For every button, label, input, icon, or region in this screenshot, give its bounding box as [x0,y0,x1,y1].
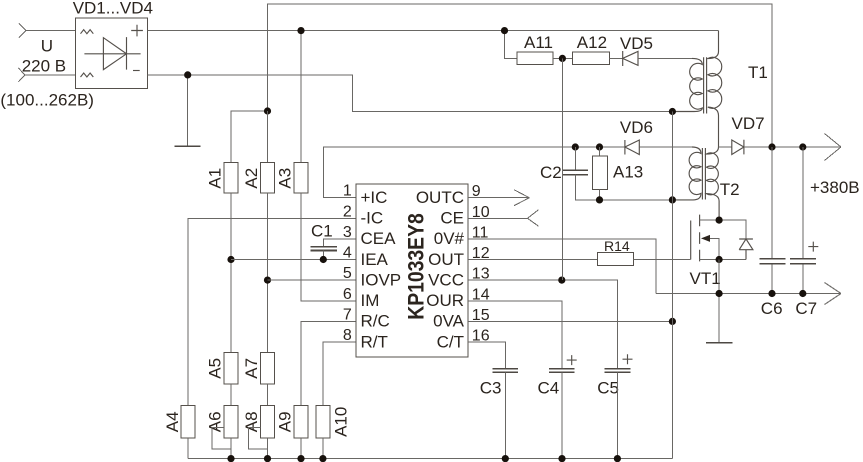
pin labels left [361,188,402,351]
svg-text:A12: A12 [577,33,607,52]
wire pin14 OUR to C4 [468,301,562,369]
wire pin15 0VA [468,320,673,322]
input terminal 1 [19,23,75,37]
wire VD7 to output arrow [744,134,841,161]
wire A6 bottom [230,438,232,459]
wire bottom rail [188,458,672,460]
diode VD5 [620,34,653,66]
svg-text:C3: C3 [480,378,502,397]
pin labels right [416,188,465,351]
svg-text:+IC: +IC [361,188,388,207]
transformer T1 primary winding [672,58,702,111]
resistor A12 [573,33,610,65]
wire A5 to A6 [230,384,232,406]
diode VT1 body [739,239,753,260]
wire rectifier plus output [148,30,719,32]
svg-text:-IC: -IC [361,209,384,228]
svg-text:R/T: R/T [361,332,388,351]
resistor A11 [517,33,553,65]
bridge rectifier VD1...VD4 [75,18,147,88]
node pin13 VCC vertical junction [558,277,565,284]
wire A9 bottom [300,438,302,459]
svg-text:VCC: VCC [428,270,464,289]
resistor A10 [316,406,351,439]
wire source down [718,260,720,343]
node T2 primary bottom [669,196,676,203]
diode VD6 [620,118,653,154]
svg-text:8: 8 [343,327,352,344]
svg-text:T2: T2 [720,180,740,199]
capacitor C3 [480,369,518,398]
wiper A8 [249,427,268,449]
wire pin5 IOVP [268,279,356,281]
node C4 rail [558,455,565,462]
node A1 A2 junction [264,107,271,114]
node C7 top [799,143,806,150]
wire A11 branch from plus rail [505,31,518,59]
node C2 top [572,143,579,150]
svg-text:A9: A9 [276,411,295,432]
wire pin4 IEA [231,259,356,261]
wire pin9 OUTC output arrow [468,190,529,206]
node C7 rail [799,290,806,297]
wire pin2 to A4 [188,218,356,405]
pin numbers right 9-16 [472,183,490,344]
svg-text:A7: A7 [242,358,261,379]
label U 220 B (100...262B) [0,37,94,110]
transistor VT1 [690,215,747,288]
resistor A6 trimmer [206,406,239,439]
resistor A5 [206,353,239,384]
svg-text:1: 1 [343,183,352,200]
transformer T1 core [704,57,707,113]
ground [175,145,201,147]
svg-text:OUTC: OUTC [416,188,464,207]
svg-text:R/C: R/C [361,312,390,331]
input terminal 2 [18,68,75,82]
svg-text:U: U [41,37,53,56]
resistor A13 [592,156,643,189]
svg-text:C6: C6 [761,299,783,318]
capacitor C7 [790,147,819,318]
resistor A4 [163,406,195,439]
wire A13 top lead [599,147,601,156]
label T2 [720,180,740,199]
wire long vertical common [671,112,673,459]
svg-text:+380B: +380B [810,178,860,197]
capacitor C2 [540,163,588,182]
node A9 rail [297,455,304,462]
svg-text:5: 5 [343,265,352,282]
pin numbers left 1-8 [343,183,352,344]
resistor A8 trimmer [242,406,275,439]
svg-text:VT1: VT1 [690,269,721,288]
node pin4 tap on A1 leg [227,256,234,263]
wire A3 top lead [300,31,302,163]
node source junction [716,256,723,263]
node pin15 junction [669,318,676,325]
transformer T2 core [702,148,705,200]
capacitor C1 [311,221,337,250]
wire A13 bottom lead [599,190,601,200]
node A13 top [596,143,603,150]
wire A11 to A12 [553,57,572,59]
svg-text:IM: IM [361,291,380,310]
svg-text:(100...262B): (100...262B) [0,91,94,110]
svg-text:2: 2 [343,203,352,220]
node VCC takeoff [559,55,566,62]
svg-text:IOVP: IOVP [361,270,402,289]
node A13 bottom [596,196,603,203]
node source rail [716,290,723,297]
wire A12 to VD5 [609,57,622,59]
capacitor C6 [760,147,786,318]
wire ground branch [187,75,189,146]
ground VT1 [706,342,733,344]
svg-text:220 B: 220 B [22,57,66,76]
wire top feedback run [268,4,773,147]
wire pin1 up to supply rail [323,147,625,198]
wire pin13 VCC [468,280,618,369]
wire rectifier minus output stepped [148,75,673,112]
wire A2 to A7 [267,193,269,353]
node drain T2 junction [716,217,723,224]
node T1 primary bottom [669,108,676,115]
svg-text:A13: A13 [613,162,643,181]
wire A1 to A5 [230,193,232,353]
svg-text:A8: A8 [242,411,261,432]
wire C2 top lead [574,147,576,170]
resistor A9 [276,406,309,439]
svg-text:6: 6 [343,286,352,303]
svg-text:C/T: C/T [437,332,464,351]
svg-text:KP1033EY8: KP1033EY8 [404,213,428,320]
svg-text:A5: A5 [206,358,225,379]
node C6 rail [768,290,775,297]
wire output common rail [656,283,841,305]
svg-text:OUR: OUR [426,291,464,310]
node A11 branch [501,27,508,34]
svg-text:CEA: CEA [361,229,397,248]
svg-text:C5: C5 [597,378,619,397]
node C5 rail [614,455,621,462]
wire A1 top link [231,111,268,162]
wire R14 to gate [634,259,691,261]
wire C5 bottom [616,372,618,458]
wire pin7 to A9 [301,321,356,405]
svg-text:C1: C1 [311,221,333,240]
node A6 rail [227,455,234,462]
wire VD5 to T1 [638,57,692,59]
svg-text:R14: R14 [604,238,630,254]
wire C3 bottom [504,372,506,458]
wire A3 to pin6 [301,193,356,301]
resistor A1 [206,162,239,193]
svg-text:CE: CE [440,209,464,228]
resistor A3 [276,162,309,193]
resistor A7 [242,353,275,384]
wire A8 bottom [267,438,269,459]
svg-text:VD5: VD5 [620,34,653,53]
IC U1 KP1033EY8 [356,184,468,357]
label T1 [748,63,768,82]
label VD1...VD4 [73,0,153,18]
resistor R14 [597,238,633,266]
node pin5 tap on A2 leg [264,277,271,284]
svg-text:C7: C7 [795,299,817,318]
transformer T2 primary winding [672,147,701,200]
svg-text:7: 7 [343,306,352,323]
wire A10 bottom [322,438,324,459]
svg-text:C2: C2 [540,163,562,182]
capacitor C4 [538,355,577,397]
svg-text:0VA: 0VA [433,312,465,331]
wiper A6 [212,427,231,449]
svg-text:4: 4 [343,245,352,262]
node C1 pin4 junction [320,256,327,263]
wire A4 bottom [187,438,189,459]
svg-text:A2: A2 [242,168,261,189]
svg-text:VD1...VD4: VD1...VD4 [73,0,153,18]
wire VCC vertical [561,58,563,280]
label +380B [810,178,860,197]
diode VD7 [719,114,765,154]
node A8 rail [264,455,271,462]
svg-text:A10: A10 [332,407,351,437]
transformer T1 secondary winding [708,31,722,147]
svg-text:A1: A1 [206,168,225,189]
wire A7 to A8 [267,384,269,406]
svg-text:A11: A11 [524,33,553,52]
wire C1 bottom [322,251,324,260]
wire C4 bottom [561,372,563,458]
node C3 rail [502,455,509,462]
capacitor C5 [597,354,632,397]
svg-text:3: 3 [343,224,352,241]
svg-text:A6: A6 [206,411,225,432]
svg-text:VD7: VD7 [732,114,765,133]
svg-text:IEA: IEA [361,250,389,269]
node A10 rail [319,455,326,462]
wire pin8 to A10 [323,342,356,406]
node top feedback tap [768,143,775,150]
wire C2 bottom to T2 return [575,175,672,200]
svg-text:0V#: 0V# [434,229,465,248]
resistor A2 [242,162,275,193]
wire pin12 OUT to R14 [468,259,597,261]
svg-text:OUT: OUT [428,250,464,269]
wire pin11 0V to output common [468,239,656,294]
svg-text:C4: C4 [538,378,560,397]
wire pin16 C/T to C3 [468,342,505,369]
wire pin10 CE input chevron [468,210,539,227]
svg-text:VD6: VD6 [620,118,653,137]
wire VD6 to T2 [639,146,692,148]
svg-text:T1: T1 [748,63,768,82]
node A3 plus wire [297,27,304,34]
wire pin3 to C1 [323,239,356,247]
node rectifier minus junction [184,71,191,78]
svg-text:A3: A3 [276,168,295,189]
transformer T2 secondary winding [706,147,719,220]
svg-text:A4: A4 [163,411,182,432]
wire A2 top lead [267,111,269,162]
